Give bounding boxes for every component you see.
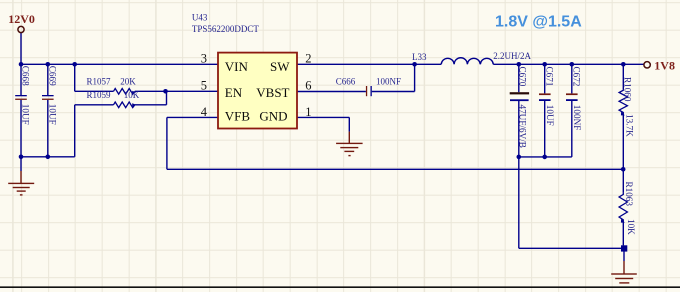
svg-text:U43: U43 <box>192 12 208 22</box>
wire R1057 left lead <box>75 90 114 92</box>
svg-text:12V0: 12V0 <box>8 12 35 26</box>
svg-text:10K: 10K <box>124 90 140 100</box>
wire C666 to riser <box>372 91 415 93</box>
ground (IC pin 1) <box>336 132 363 157</box>
svg-text:13.7K: 13.7K <box>625 114 635 137</box>
svg-text:R1060: R1060 <box>623 77 633 102</box>
node VIN rail / R1057 <box>72 62 77 67</box>
node cap gnd / C670 <box>517 155 522 160</box>
node out / C672 <box>570 62 575 67</box>
wire to bottom ground <box>623 252 625 262</box>
svg-text:VBST: VBST <box>256 85 289 100</box>
svg-text:R1057: R1057 <box>87 76 112 86</box>
svg-text:2.2UH/2A: 2.2UH/2A <box>493 51 531 61</box>
svg-text:10UF: 10UF <box>545 105 555 126</box>
wire VFB corner down <box>166 117 168 169</box>
wire 12V0 port to rail <box>20 33 22 64</box>
wire R1059 left lead down to ground rail <box>74 105 76 157</box>
svg-text:EN: EN <box>225 85 243 100</box>
wire SW node to inductor <box>415 63 442 65</box>
svg-text:C672: C672 <box>572 67 582 87</box>
svg-text:GND: GND <box>259 108 287 123</box>
svg-text:TPS562200DDCT: TPS562200DDCT <box>192 24 260 34</box>
wire C669 bottom lead <box>47 100 49 157</box>
svg-text:1: 1 <box>305 105 311 119</box>
wire VIN rail <box>21 63 218 65</box>
wire SW pin to node <box>297 63 415 65</box>
resistor R1057 <box>114 89 135 95</box>
wire C668 top lead <box>20 64 22 95</box>
capacitor C669 <box>42 95 54 100</box>
wire C670 bottom lead <box>518 101 520 157</box>
wire C671 top lead <box>544 64 546 93</box>
wire C672 top lead <box>571 64 573 93</box>
svg-text:100NF: 100NF <box>572 105 582 131</box>
wire R1060 top lead <box>622 64 624 89</box>
resistor R1059 <box>114 102 135 108</box>
wire ground rail left <box>21 156 75 158</box>
svg-text:1.8V @1.5A: 1.8V @1.5A <box>495 14 582 31</box>
resistor R1063 <box>619 193 627 222</box>
svg-text:47UF/6V/B: 47UF/6V/B <box>518 105 528 148</box>
wire C672 bottom lead <box>571 101 573 157</box>
sheet border line <box>0 286 680 288</box>
wire C668 bottom lead <box>20 100 22 157</box>
node VIN rail / C669 <box>46 62 51 67</box>
wire cap ground rail <box>519 156 572 158</box>
wire C669 top lead <box>47 64 49 95</box>
wire ground loop down <box>518 157 520 248</box>
node out / R1060 <box>621 62 626 67</box>
svg-text:4: 4 <box>201 105 208 119</box>
wire riser to SW node <box>414 64 416 91</box>
node FB divider <box>621 167 626 172</box>
svg-text:3: 3 <box>201 51 207 65</box>
power port 12V0 <box>8 12 35 33</box>
node cap gnd / C671 <box>542 155 547 160</box>
wire R1059 right lead <box>135 104 167 106</box>
svg-text:L33: L33 <box>412 52 427 62</box>
wire R1057 right lead to EN <box>135 90 218 92</box>
svg-text:R1063: R1063 <box>624 182 634 207</box>
node out / C670 <box>517 62 522 67</box>
op-amp U43 body (IC TPS562200DDCT) <box>218 53 297 129</box>
svg-text:100NF: 100NF <box>376 77 401 87</box>
wire ground loop across <box>519 247 622 249</box>
wire VIN to R1057 <box>74 64 76 91</box>
svg-text:6: 6 <box>305 78 311 92</box>
svg-text:C671: C671 <box>545 67 555 87</box>
wire VFB pin to corner <box>167 116 218 118</box>
svg-text:VIN: VIN <box>225 59 249 74</box>
svg-text:C668: C668 <box>21 66 31 86</box>
wire C671 bottom lead <box>544 101 546 157</box>
wire R1063 bottom lead <box>622 222 624 245</box>
resistor R1060 <box>619 89 627 115</box>
svg-text:VFB: VFB <box>225 108 251 123</box>
capacitor C668 <box>15 95 27 100</box>
svg-text:R1059: R1059 <box>87 90 112 100</box>
node out / C671 <box>542 62 547 67</box>
inductor L33 <box>441 58 493 65</box>
wire feedback run <box>167 168 623 170</box>
node VIN rail / port <box>19 62 24 67</box>
wire VBST pin to C666 <box>297 91 366 93</box>
wire R1059 up to EN node <box>166 91 168 105</box>
svg-text:C670: C670 <box>518 67 528 87</box>
capacitor C666 <box>366 86 372 96</box>
capacitor C671 <box>539 93 551 101</box>
svg-text:10UF: 10UF <box>21 104 31 125</box>
svg-text:SW: SW <box>270 59 290 74</box>
capacitor C672 <box>566 93 578 101</box>
svg-text:2: 2 <box>305 51 311 65</box>
ground (bottom right) <box>611 261 637 284</box>
node gnd rail / C668 <box>19 155 24 160</box>
svg-text:20K: 20K <box>120 76 136 86</box>
capacitor C670 (polarized) <box>510 92 529 101</box>
power port 1V8 <box>644 59 675 73</box>
wire output rail <box>493 63 643 65</box>
svg-text:10UF: 10UF <box>48 104 58 125</box>
svg-text:5: 5 <box>201 78 207 92</box>
wire R1060 bottom lead <box>622 115 624 170</box>
wire GND pin horizontal <box>297 116 349 118</box>
svg-text:C666: C666 <box>336 77 356 87</box>
svg-text:10K: 10K <box>626 219 636 235</box>
wire C670 top lead <box>518 64 520 92</box>
svg-text:1V8: 1V8 <box>654 59 675 73</box>
svg-text:C669: C669 <box>48 66 58 86</box>
node gnd square junction <box>621 245 627 251</box>
node EN <box>163 89 168 94</box>
node gnd rail / C669 <box>46 155 51 160</box>
wire R1059 left lead <box>75 104 114 106</box>
wire R1063 top lead <box>622 169 624 193</box>
wire GND pin down <box>348 117 350 131</box>
node SW / bootstrap <box>412 62 417 67</box>
ground (left, input caps) <box>8 157 34 196</box>
